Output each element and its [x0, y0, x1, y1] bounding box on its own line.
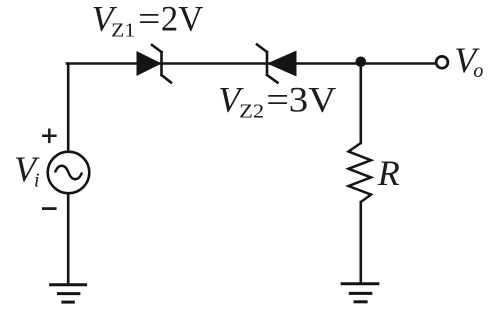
- svg-text:2V: 2V: [161, 0, 203, 39]
- svg-text:i: i: [34, 170, 40, 192]
- zener diode VZ1: [137, 45, 172, 83]
- wire left vertical (top): [67, 64, 70, 152]
- svg-text:=: =: [138, 0, 160, 39]
- svg-text:Z2: Z2: [239, 101, 264, 123]
- svg-text:=: =: [266, 80, 289, 120]
- svg-text:3V: 3V: [289, 80, 336, 120]
- AC source Vi: [48, 152, 90, 194]
- ground (left): [49, 285, 87, 302]
- wire right vertical (junction to resistor): [359, 64, 362, 144]
- terminal Vo open circle: [436, 56, 448, 68]
- wire right vertical (resistor to ground): [359, 202, 362, 283]
- svg-text:R: R: [377, 153, 400, 193]
- wire left vertical (bottom): [67, 194, 70, 284]
- svg-text:Z1: Z1: [111, 20, 135, 42]
- svg-text:o: o: [473, 60, 483, 82]
- minus sign: [42, 207, 57, 210]
- node junction dot: [356, 57, 367, 68]
- zener diode VZ2: [257, 45, 297, 83]
- plus sign: [42, 129, 57, 144]
- resistor R: [349, 143, 372, 202]
- wire top horizontal: [67, 62, 434, 65]
- ground (right): [341, 284, 380, 302]
